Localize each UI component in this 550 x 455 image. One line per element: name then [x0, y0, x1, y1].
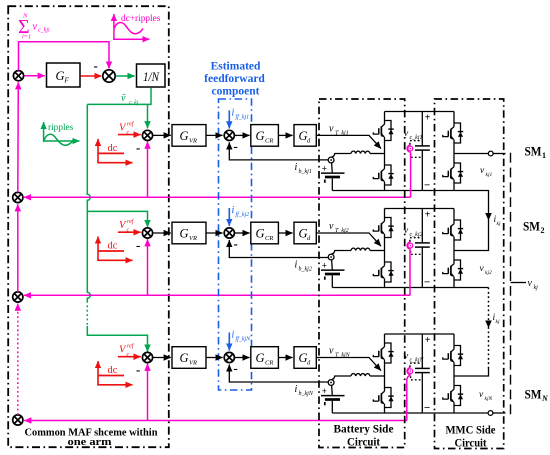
wire: battery to inductor row2 [331, 251, 351, 255]
wire: Vc_ref arrow row1 [118, 134, 141, 136]
svg-text:VR: VR [189, 360, 197, 367]
node S2a: reference summer row2 [142, 228, 152, 238]
svg-text:b_kj1: b_kj1 [299, 169, 312, 175]
wire: v_c_kj1 branch into row1 summer minus [147, 142, 149, 198]
wire: probe tail rowN down to feedback [407, 375, 411, 420]
wire: i_ff feedforward arrow row2 (blue) [228, 208, 230, 226]
svg-text:1/N: 1/N [143, 69, 160, 84]
wire: i_b current feedback rowN [229, 365, 328, 383]
svg-text:ff_kj2: ff_kj2 [236, 211, 250, 218]
svg-text:Circuit: Circuit [455, 438, 487, 450]
transistor QNb: battery bridge bottom IGBT rowN [373, 387, 393, 409]
block GF: moving average filter [47, 63, 81, 87]
wire: SMN bottom output [454, 412, 488, 414]
svg-text:+: + [425, 113, 431, 124]
block Gd row2 [294, 222, 316, 244]
wire: v_T gate drive row1 [316, 135, 381, 148]
box: Battery Side Circuit [319, 99, 405, 448]
wire: mid summer to GCR rowN [235, 357, 250, 359]
wire: top rail row1 [385, 111, 455, 113]
capacitor C2: submodule capacitor row2 [421, 209, 423, 288]
svg-text:v: v [329, 221, 334, 232]
svg-text:dc: dc [108, 143, 118, 154]
svg-text:+: + [322, 261, 327, 271]
svg-text:T_kjN: T_kjN [335, 353, 351, 359]
svg-text:v: v [33, 22, 38, 33]
wire: bottom rail row1 [332, 190, 454, 192]
svg-text:i: i [232, 107, 235, 118]
wire: summer to GVR row2 [153, 232, 171, 234]
wire: summer to GVR row1 [153, 134, 171, 136]
wire: MMC bridge rail row1 [453, 112, 455, 191]
wire: v_c_kj2 branch into row2 summer minus [147, 239, 149, 295]
node S1a: reference summer row1 [142, 130, 152, 140]
inductor L row1 [351, 151, 370, 153]
svg-text:+: + [322, 386, 327, 396]
block GCR rowN [251, 347, 279, 369]
wire: SMN terminal stub [493, 412, 506, 414]
wire: X1 to GF [24, 75, 45, 77]
block GCR row1 [251, 125, 279, 147]
wire: GVR to mid summer rowN [206, 357, 223, 359]
svg-text:CR: CR [265, 235, 273, 242]
svg-text:SM: SM [523, 220, 540, 234]
svg-text:CR: CR [265, 360, 273, 367]
svg-text:ripples: ripples [48, 123, 74, 133]
wire: GF to X2 (red) [81, 75, 102, 77]
svg-text:dc: dc [108, 241, 118, 252]
wire: long green vertical with hops [87, 104, 90, 301]
transistor Q1d: MMC bottom IGBT row1 [443, 162, 463, 184]
svg-text:G: G [180, 351, 189, 365]
wire: v_T gate drive rowN [316, 358, 381, 371]
wire: v_c_kjN branch into rowN summer minus [147, 364, 149, 421]
wire: battery bridge rail row2 [384, 209, 386, 288]
wire: arm dashed line [510, 153, 512, 415]
wire: probe tail row2 down to feedback [409, 250, 411, 296]
wire: MMC bridge rail row2 [453, 209, 455, 288]
svg-text:one arm: one arm [68, 436, 112, 448]
wire: top rail rowN [385, 333, 455, 335]
wire: bottom rail row2 [332, 287, 454, 289]
svg-text:ff_kjN: ff_kjN [236, 336, 252, 343]
wire: battery bridge rail row1 [384, 112, 386, 191]
svg-text:-: - [136, 238, 140, 253]
svg-text:−: − [424, 402, 430, 414]
svg-text:kj2: kj2 [485, 270, 492, 276]
wire: probe dotted links row1 [410, 141, 422, 145]
wire: mid summer to GCR row2 [235, 232, 250, 234]
svg-text:i: i [295, 162, 298, 173]
svg-text:b_kj2: b_kj2 [299, 267, 312, 273]
battery B2 [331, 260, 334, 271]
transistor Q1c: MMC top IGBT row1 [443, 122, 463, 144]
svg-text:kj: kj [497, 221, 501, 227]
wire: probe dotted links rowN [410, 363, 422, 367]
transistor QNc: MMC top IGBT rowN [443, 345, 463, 367]
label: Vc_ref row2 [119, 218, 135, 234]
svg-text:c kj: c kj [129, 100, 139, 106]
label: sum of v_c_kji [18, 13, 50, 41]
node MN: arm-sum node rowN [13, 415, 23, 425]
node terminal SM1 [488, 151, 493, 156]
node battery sensor row1 [328, 157, 334, 163]
svg-text:Estimated: Estimated [211, 61, 261, 73]
node voltage probe row1 (magenta) [408, 146, 413, 151]
wire: green branch into rowN summer [87, 326, 147, 352]
transistor Q2c: MMC top IGBT row2 [443, 219, 463, 241]
svg-text:G: G [180, 129, 189, 143]
label: i_kj arrow between SM2 SMN [485, 321, 492, 329]
block GVR rowN [172, 347, 206, 369]
wire: SM2 bottom dotted to SMN midpoint [454, 287, 489, 289]
wire: inductor to bridge midpoint rowN [370, 375, 385, 377]
svg-text:v: v [329, 346, 334, 357]
node SNa: reference summer rowN [142, 352, 152, 362]
wire: battery bridge rail rowN [384, 334, 386, 413]
svg-text:-: - [136, 362, 140, 377]
wire: i_ff feedforward arrow row1 (blue) [228, 110, 230, 128]
wire: probe hook row2 [407, 242, 411, 249]
svg-text:-: - [94, 58, 98, 73]
label: battery minus tick rowN [324, 402, 326, 405]
svg-text:T_kj2: T_kj2 [335, 228, 349, 234]
transistor Q1b: battery bridge bottom IGBT row1 [373, 164, 393, 186]
wire: GCR to Gd row2 [278, 232, 292, 234]
svg-text:kj1: kj1 [486, 172, 493, 178]
svg-text:G: G [256, 129, 265, 143]
svg-text:v: v [528, 278, 533, 289]
svg-text:SM: SM [525, 145, 542, 159]
svg-text:F: F [64, 77, 70, 85]
wire: X1 output up and over to X2 [19, 42, 110, 71]
wire: Vc_ref arrow rowN [118, 356, 141, 358]
svg-text:i: i [295, 384, 298, 395]
wire: X2 to 1/N (green) [116, 75, 135, 77]
wire: Vc_ref arrow row2 [118, 231, 141, 233]
wire: chain M2 up to M1 [17, 204, 19, 292]
node X1: top-left multiplier [13, 71, 23, 81]
node battery sensor row2 [328, 254, 334, 260]
transistor QNd: MMC bottom IGBT rowN [443, 385, 463, 407]
svg-text:b_kjN: b_kjN [299, 391, 314, 397]
svg-text:-: - [234, 361, 238, 376]
node X2: multiplier before 1/N [103, 70, 115, 82]
box: MMC Side Circuit [435, 99, 504, 449]
wire: probe tail row1 down to feedback [410, 153, 412, 198]
block Gd row1 [294, 125, 316, 147]
svg-text:i: i [295, 260, 298, 271]
block GVR row1 [172, 125, 206, 147]
wire: probe hook row1 [407, 145, 411, 152]
wire: v_T gate drive row2 [316, 233, 381, 246]
node voltage probe rowN (magenta) [408, 369, 413, 374]
wire: probe dotted links row2 [410, 238, 422, 242]
label: ripples waveform sketch (green) [43, 122, 80, 145]
wire: MMC bridge rail rowN [453, 334, 455, 413]
wire: GCR to Gd row1 [278, 134, 292, 136]
wire: green branch into row2 summer [87, 211, 147, 227]
svg-text:kjN: kjN [485, 396, 493, 402]
node voltage probe row2 (magenta) [408, 243, 413, 248]
svg-text:−: − [424, 180, 430, 192]
wire: inductor to bridge midpoint row2 [370, 250, 385, 252]
capacitor CN: submodule capacitor rowN [421, 334, 423, 413]
wire: v_kj tick [511, 282, 527, 284]
wire: chain MN up to M2 (dotted) [17, 304, 19, 415]
svg-text:c_kji: c_kji [38, 28, 50, 34]
wire: SM1 midpoint output [454, 153, 488, 155]
svg-text:ff_kj1: ff_kj1 [236, 113, 250, 120]
wire: probe hook rowN [407, 367, 411, 374]
svg-text:VR: VR [189, 235, 197, 242]
label: i_kj arrow between SM1 SM2 [485, 213, 492, 221]
wire: 1/N output down-left (green) [87, 88, 151, 105]
wire: v_c_kj1 feedback horizontal [24, 196, 411, 198]
wire: battery to inductor rowN [331, 376, 351, 380]
wire: green branch into row1 summer [147, 104, 149, 128]
svg-text:CR: CR [265, 137, 273, 144]
transistor Q2d: MMC bottom IGBT row2 [443, 259, 463, 281]
transistor QNa: battery bridge top IGBT rowN [373, 342, 393, 364]
wire: inductor to bridge midpoint row1 [370, 153, 385, 155]
node M1: arm-sum node row1 [13, 192, 23, 202]
svg-text:-: - [234, 138, 238, 153]
box: Common MAF scheme within one arm [8, 6, 169, 447]
wire: i_ff feedforward arrow rowN (blue) [228, 333, 230, 351]
svg-text:−: − [424, 277, 430, 289]
svg-text:-: - [234, 236, 238, 251]
svg-text:VR: VR [189, 137, 197, 144]
svg-text:i: i [232, 330, 235, 341]
svg-text:SM: SM [525, 388, 542, 402]
svg-text:i: i [232, 205, 235, 216]
svg-text:i=1: i=1 [22, 33, 31, 40]
wire: GCR to Gd rowN [278, 357, 292, 359]
svg-text:ṽ: ṽ [121, 93, 126, 104]
svg-text:G: G [180, 227, 189, 241]
wire: SM1 terminal stub [493, 153, 505, 155]
label: Vc_ref rowN [119, 343, 135, 359]
wire: v_c_kjN feedback horizontal [24, 420, 407, 422]
svg-text:compoent: compoent [212, 86, 260, 98]
svg-text:feedforward: feedforward [204, 73, 265, 85]
capacitor C1: submodule capacitor row1 [421, 112, 423, 191]
label: dc axes sketch row2 [97, 237, 132, 262]
svg-text:kj: kj [496, 319, 500, 325]
node battery sensor rowN [328, 380, 334, 386]
wire: summer to GVR rowN [153, 357, 171, 359]
svg-text:+: + [425, 335, 431, 346]
svg-text:2: 2 [541, 226, 545, 235]
block 1/N [137, 64, 166, 87]
svg-text:-: - [136, 140, 140, 155]
transistor Q2b: battery bridge bottom IGBT row2 [373, 261, 393, 283]
transistor Q1a: battery bridge top IGBT row1 [373, 120, 393, 142]
wire: i_b current feedback row2 [229, 240, 328, 258]
battery B1 [331, 163, 334, 174]
transistor Q2a: battery bridge top IGBT row2 [373, 217, 393, 239]
svg-text:G: G [56, 69, 65, 83]
svg-text:+: + [425, 210, 431, 221]
wire: battery to inductor row1 [331, 154, 351, 158]
wire: mid summer to GCR row1 [235, 134, 250, 136]
svg-text:dc+ripples: dc+ripples [121, 14, 161, 24]
svg-text:+: + [322, 164, 327, 174]
wire: i_b current feedback row1 [229, 142, 328, 160]
wire: top rail row2 [385, 208, 455, 210]
svg-text:kj: kj [534, 285, 539, 291]
node S1b: current summer row1 [224, 130, 234, 140]
inductor L row2 [351, 248, 370, 250]
svg-text:1: 1 [542, 151, 546, 160]
label: Estimated feedforward compoent [204, 61, 265, 98]
battery BN [331, 385, 334, 396]
node M2: arm-sum node row2 [13, 292, 23, 302]
wire: chain M1 up to X1 [17, 82, 20, 192]
svg-text:Battery Side: Battery Side [334, 424, 394, 436]
svg-text:Circuit: Circuit [347, 437, 380, 449]
label: battery minus tick row1 [324, 180, 326, 183]
label: dc+ripples waveform sketch [113, 14, 149, 40]
wire: GVR to mid summer row1 [206, 134, 223, 136]
wire: bottom rail rowN [332, 412, 454, 414]
svg-text:dc: dc [108, 365, 118, 376]
wire: v_c_kj2 feedback horizontal [24, 294, 410, 296]
label: battery minus tick row2 [324, 277, 326, 280]
label: dc axes sketch rowN [97, 361, 132, 386]
block GCR row2 [251, 222, 279, 244]
wire: GVR to mid summer row2 [206, 232, 223, 234]
block Gd rowN [294, 347, 316, 369]
node SNb: current summer rowN [224, 352, 234, 362]
label: Vc_ref row1 [119, 120, 135, 135]
svg-text:T_kj1: T_kj1 [335, 130, 349, 136]
svg-text:MMC Side: MMC Side [446, 425, 496, 437]
svg-text:G: G [256, 227, 265, 241]
block GVR row2 [172, 222, 206, 244]
inductor L rowN [351, 374, 370, 376]
node terminal SMN [488, 411, 493, 416]
node S2b: current summer row2 [224, 228, 234, 238]
label: dc axes sketch row1 [97, 139, 132, 164]
box: estimated feedforward component (blue dash-dot) [219, 99, 252, 390]
wire: SM1 bottom to SM2 midpoint [454, 191, 489, 251]
svg-text:v: v [329, 123, 334, 134]
svg-text:G: G [256, 351, 265, 365]
